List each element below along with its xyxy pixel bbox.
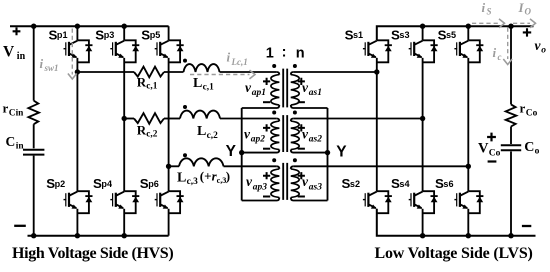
transformer T3 primary winding [277,166,280,169]
wire Sp4 emitter leg [123,209,125,236]
svg-text:s4: s4 [399,179,410,189]
node Y secondary [325,150,330,155]
wire row C to transformer [224,165,277,167]
svg-text:c,2: c,2 [146,130,158,140]
transformer T1 secondary winding [291,72,294,75]
wire secondary phase A [293,71,377,73]
svg-text:R: R [137,75,147,90]
wire phase C row [169,165,179,167]
transistor Ss1 [363,40,392,62]
current arrow i_S [472,22,499,24]
wire secondary phase B [293,118,422,120]
svg-text:s2: s2 [350,179,360,189]
wire secondary neutral [327,108,329,201]
inductor Lc1 [184,64,220,72]
wire primary neutral [241,108,243,201]
svg-text:I: I [518,0,525,15]
svg-text:V: V [478,141,489,157]
svg-text:ap3: ap3 [253,183,267,193]
label - secondary T1 [298,101,305,103]
transformer T2 secondary winding [291,119,294,122]
junction output top [508,24,513,29]
label + primary T1 [263,78,270,85]
node dot T3 primary [272,158,276,162]
wire Sp3 collector leg [123,26,125,40]
label + secondary T2 [298,124,305,131]
svg-text:p4: p4 [101,179,113,189]
transformer T3 secondary winding [291,166,294,169]
svg-text:as3: as3 [309,183,322,193]
node phase tap Sp5/Sp6 [166,164,171,169]
wire LVS top rail [377,26,534,40]
svg-text:in: in [17,51,26,62]
inductor Lc2 [180,111,220,119]
label - primary T2 [263,148,270,150]
svg-text:Lc,1: Lc,1 [231,57,248,67]
svg-text:o: o [535,147,540,157]
node phase tap Ss5/Ss6 [466,164,471,169]
transistor Sp6 [155,191,184,213]
wire input branch bottom [33,156,35,236]
wire output branch bottom [510,152,512,236]
svg-text:sw1: sw1 [44,63,59,73]
wire Ss6 emitter leg [467,209,469,236]
inductor Lc3 [179,158,223,166]
wire row B mid [164,118,180,120]
wire HVS top rail [10,25,169,27]
junction Sp3 top rail [122,24,127,29]
node dot Lc2 [183,105,187,109]
node phase tap Ss1/Ss2 [374,69,379,74]
wire Ss5 collector leg [467,26,469,40]
wire leg Sp5-Sp6 midsection [168,58,170,191]
label - output [522,225,531,227]
node Y primary [239,150,244,155]
transistor Sp3 [110,40,139,62]
svg-text:c,2: c,2 [207,131,219,141]
wire leg Ss3-Ss4 midsection [422,58,424,191]
wire input branch top [33,26,35,100]
svg-text:C: C [524,140,534,155]
svg-text:s6: s6 [443,179,453,189]
svg-text:S: S [487,7,492,17]
svg-text:L: L [193,76,202,91]
resistor Rc1 [134,67,164,78]
svg-text:i: i [40,56,44,71]
junction Ss5 top rail [466,24,471,29]
junction Sp1 top rail [75,24,80,29]
wire Sp5 collector leg [168,26,170,40]
wire phase A row [77,71,134,73]
svg-text:Co: Co [489,149,501,159]
label + secondary T1 [298,78,305,85]
wire phase B row [124,118,134,120]
wire HVS bottom rail [28,235,169,237]
label - secondary T3 [298,196,305,198]
wire Ss3 collector leg [422,26,424,40]
wire leg Sp1-Sp2 midsection [76,58,78,191]
svg-text:i: i [482,0,486,15]
svg-text:Co: Co [526,108,538,118]
svg-text:c,1: c,1 [146,82,158,92]
svg-text:ap1: ap1 [252,88,266,98]
wire leg Ss1-Ss2 midsection [376,58,378,191]
transformer T1 primary winding [277,72,280,75]
label + secondary T3 [298,172,305,179]
svg-text::: : [282,45,287,61]
wire Ss4 emitter leg [422,209,424,236]
wire row A mid [164,71,184,73]
transformer T2 core [283,115,287,152]
current arrow i_c [507,28,509,60]
wire row A to transformer [220,71,277,73]
node phase tap Ss3/Ss4 [420,116,425,121]
resistor rCo [506,104,517,126]
svg-text:o: o [541,46,546,56]
node dot T1 secondary [293,64,297,68]
junction Ss4 bottom rail [420,233,425,238]
svg-text:s1: s1 [353,30,363,40]
transistor Ss2 [363,191,392,213]
current arrow i_sw1 [71,29,73,75]
label + VCo [487,133,496,142]
node dot Lc3 [183,153,187,157]
wire input branch mid [33,124,35,148]
transistor Ss5 [454,40,483,62]
junction Sp2 bottom rail [75,233,80,238]
label + output [523,28,531,36]
node phase tap Sp3/Sp4 [122,116,127,121]
label + primary T3 [263,172,270,179]
svg-text:p5: p5 [150,30,161,40]
svg-text:r: r [3,101,9,116]
svg-text:ap2: ap2 [251,135,265,145]
svg-text:C: C [6,134,16,149]
wire leg Ss5-Ss6 midsection [467,58,469,191]
svg-text:p2: p2 [55,179,66,189]
label + primary T2 [263,124,270,131]
svg-text:r: r [520,101,526,116]
label + input [13,27,21,35]
svg-text:as2: as2 [309,135,322,145]
svg-text:i: i [493,45,497,60]
svg-text:): ) [226,168,230,183]
label - VCo [488,160,497,162]
wire Sp6 emitter leg [168,209,170,236]
transistor Ss6 [454,191,483,213]
junction output bottom [508,233,513,238]
resistor rCin [28,101,39,125]
svg-text:p3: p3 [104,30,115,40]
transistor Ss3 [409,40,438,62]
current arrow i_Lc1 [190,74,250,76]
transistor Sp4 [110,191,139,213]
label - secondary T2 [298,148,305,150]
node dot Lc1 [183,59,187,63]
svg-text:L: L [177,170,186,185]
node dot T2 primary [272,111,276,115]
junction Ss6 bottom rail [466,233,471,238]
wire LVS bottom rail [377,209,536,236]
junction input bottom [31,233,36,238]
svg-text:L: L [197,124,206,139]
junction Ss3 top rail [420,24,425,29]
svg-text:Low Voltage Side (LVS): Low Voltage Side (LVS) [375,245,533,262]
svg-text:(+: (+ [200,168,212,183]
wire Sp2 emitter leg [76,209,78,236]
svg-text:c,1: c,1 [203,83,215,93]
wire output branch top [510,26,512,104]
svg-text:s3: s3 [399,30,409,40]
capacitor Cin [23,150,44,155]
svg-text:p1: p1 [57,30,68,40]
junction input top [31,24,36,29]
transformer T2 primary winding [277,119,280,122]
current arrow I_O [513,22,530,24]
resistor Rc2 [134,113,164,124]
label - input [14,225,26,227]
node dot T3 secondary [293,158,297,162]
svg-text:Y: Y [336,144,347,161]
node dot T1 primary [272,64,276,68]
transistor Sp1 [64,40,93,62]
svg-text:in: in [16,141,25,151]
wire secondary phase C [293,165,468,167]
svg-text:c,3: c,3 [187,177,199,187]
svg-text:Y: Y [226,143,237,160]
svg-text:O: O [525,7,532,17]
wire leg Sp3-Sp4 midsection [123,58,125,191]
transformer T1 core [283,69,287,108]
label - primary T3 [263,196,270,198]
transistor Sp5 [155,40,184,62]
svg-text:Cin: Cin [9,108,24,118]
wire output branch mid [510,127,512,145]
capacitor Co [501,145,521,150]
node phase tap Sp1/Sp2 [75,69,80,74]
junction Sp4 bottom rail [122,233,127,238]
svg-text:i: i [227,50,231,65]
svg-text:c: c [498,52,502,62]
label - primary T1 [263,101,270,103]
svg-text:V: V [3,43,15,60]
transformer T3 core [283,163,287,200]
svg-text:p6: p6 [148,179,159,189]
wire Sp1 collector leg [76,26,78,40]
transistor Sp2 [64,191,93,213]
svg-text:as1: as1 [309,88,322,98]
node dot T2 secondary [293,111,297,115]
wire row B to transformer [220,118,277,120]
transistor Ss4 [409,191,438,213]
svg-text:R: R [137,123,147,138]
svg-text:1: 1 [266,45,274,61]
svg-text:n: n [296,45,305,61]
svg-text:High Voltage Side (HVS): High Voltage Side (HVS) [12,245,173,262]
svg-text:s5: s5 [446,30,456,40]
